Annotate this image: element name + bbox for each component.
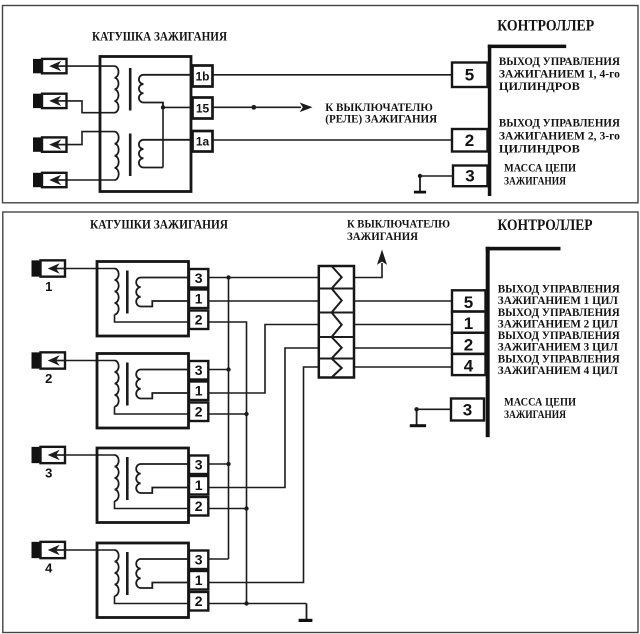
svg-text:ЗАЖИГАНИЯ: ЗАЖИГАНИЯ	[347, 231, 419, 243]
terminal 3 coil 4	[189, 551, 208, 570]
svg-text:1: 1	[195, 383, 203, 399]
svg-text:2: 2	[464, 335, 473, 354]
wire plug to coil 2	[65, 360, 115, 362]
svg-text:КАТУШКИ ЗАЖИГАНИЯ: КАТУШКИ ЗАЖИГАНИЯ	[90, 218, 228, 232]
arrow up to ignition switch	[377, 250, 387, 265]
svg-text:2: 2	[195, 404, 203, 420]
svg-text:МАССА ЦЕПИ: МАССА ЦЕПИ	[504, 397, 576, 409]
coil 2 primary winding	[115, 361, 119, 407]
ignition coil 3 box	[97, 448, 189, 523]
terminal 3 coil 1	[189, 269, 208, 288]
wire terminal 1b to controller pin 5	[213, 74, 453, 76]
svg-text:3: 3	[195, 552, 203, 568]
wire coil2 terminal2 to bus	[208, 413, 246, 415]
svg-text:1: 1	[195, 572, 203, 588]
wire coil4 terminal1 to connector block	[208, 367, 318, 583]
svg-text:КОНТРОЛЛЕР: КОНТРОЛЛЕР	[498, 217, 593, 234]
node: secondary junction to terminal 15	[161, 105, 165, 109]
coil 3 secondary winding with wires to terminals 3 and 1	[136, 464, 189, 493]
coil 4 secondary winding with wires to terminals 3 and 1	[136, 559, 189, 588]
svg-text:(РЕЛЕ) ЗАЖИГАНИЯ: (РЕЛЕ) ЗАЖИГАНИЯ	[325, 113, 437, 125]
coil core upper	[129, 68, 132, 111]
wire coil4 terminal3 to bus	[208, 558, 228, 560]
high-voltage lead connector 2 (top panel)	[33, 94, 42, 108]
coil 2 secondary winding with wires to terminals 3 and 1	[136, 370, 189, 399]
svg-text:1b: 1b	[195, 69, 209, 83]
svg-text:3: 3	[195, 457, 203, 473]
svg-text:2: 2	[195, 312, 203, 328]
controller pin 5 (top)	[452, 63, 488, 88]
terminal 1 coil 4	[189, 571, 208, 590]
coil 2 core	[126, 363, 129, 406]
terminal 1 coil 3	[189, 476, 208, 495]
arrow to ignition switch (relay)	[300, 103, 313, 113]
svg-text:5: 5	[465, 66, 474, 85]
bottom panel frame	[3, 212, 638, 633]
junction t2 bus coil2	[244, 412, 248, 416]
terminal 1b	[193, 66, 213, 87]
wire coil2 terminal1 to connector block	[208, 325, 318, 394]
wire terminal 1a to controller pin 2	[213, 139, 453, 141]
ground symbol (bottom right)	[416, 409, 418, 425]
controller pin 5 (bottom)	[452, 290, 486, 311]
wire coil3 terminal1 to connector block	[208, 348, 318, 488]
wire junction to terminal 15	[163, 106, 193, 108]
terminal 2 coil 4	[189, 592, 208, 611]
wire coil3 terminal2 to bus	[208, 508, 246, 510]
svg-text:3: 3	[463, 401, 472, 420]
terminal 3 coil 3	[189, 456, 208, 475]
terminal 3 coil 2	[189, 361, 208, 380]
svg-text:2: 2	[45, 371, 52, 386]
svg-text:ЗАЖИГАНИЕМ 2 ЦИЛ: ЗАЖИГАНИЕМ 2 ЦИЛ	[498, 318, 618, 330]
svg-text:1: 1	[45, 279, 52, 294]
svg-text:ВЫХОД УПРАВЛЕНИЯ: ВЫХОД УПРАВЛЕНИЯ	[499, 118, 621, 130]
ignition coil 4 box	[97, 543, 189, 618]
wire lead1 to coil primary1 top	[67, 65, 115, 67]
controller pin 4 (bottom)	[452, 354, 486, 375]
node on ignition switch wire	[251, 105, 256, 110]
connector cell dividers	[319, 288, 354, 290]
svg-text:ВЫХОД УПРАВЛЕНИЯ: ВЫХОД УПРАВЛЕНИЯ	[498, 307, 621, 319]
controller pin 1 (bottom)	[452, 312, 486, 333]
svg-text:3: 3	[195, 270, 203, 286]
wire coil1 terminal2 and terminal-2 bus	[208, 322, 246, 604]
svg-text:КОНТРОЛЛЕР: КОНТРОЛЛЕР	[497, 17, 594, 34]
coil 3 wire primary to terminal 2	[115, 501, 190, 509]
wire connector to pin 2 (bottom)	[354, 347, 452, 349]
ignition coil 2 box	[97, 354, 189, 429]
coil 1 core	[126, 271, 129, 314]
svg-text:3: 3	[465, 167, 474, 186]
svg-text:1a: 1a	[196, 135, 210, 149]
svg-text:КАТУШКА ЗАЖИГАНИЯ: КАТУШКА ЗАЖИГАНИЯ	[92, 30, 227, 44]
connector contact zigzag	[332, 266, 342, 378]
wire coil2 terminal3 to bus	[208, 369, 228, 371]
coil 1 secondary winding with wires to terminals 3 and 1	[136, 278, 189, 307]
svg-text:ВЫХОД УПРАВЛЕНИЯ: ВЫХОД УПРАВЛЕНИЯ	[498, 353, 621, 365]
coil core lower	[129, 134, 132, 177]
svg-text:ЦИЛИНДРОВ: ЦИЛИНДРОВ	[499, 144, 580, 156]
svg-text:2: 2	[465, 131, 474, 150]
controller pin 3 (bottom)	[451, 399, 484, 421]
wire plug to coil 1	[65, 268, 115, 270]
svg-text:ЗАЖИГАНИЕМ 4 ЦИЛ: ЗАЖИГАНИЕМ 4 ЦИЛ	[498, 365, 618, 377]
terminal 2 coil 2	[189, 403, 208, 422]
svg-text:4: 4	[45, 560, 53, 575]
terminal 1a	[193, 131, 213, 152]
wire connector to pin 1 (bottom)	[354, 324, 452, 326]
coil 4 wire primary to terminal 2	[115, 596, 190, 604]
svg-text:ЗАЖИГАНИЕМ 2, 3-го: ЗАЖИГАНИЕМ 2, 3-го	[499, 131, 620, 143]
wire lead3 to coil primary2 top	[67, 132, 115, 145]
controller pin 2 (top)	[452, 129, 488, 152]
connector plug coil 1	[32, 260, 41, 276]
wire pin 3 to ground (top)	[420, 175, 453, 177]
top panel frame	[3, 6, 639, 203]
wire connector to pin 5 (bottom)	[354, 300, 452, 302]
controller pin 3 (top)	[453, 166, 488, 187]
high-voltage lead connector 1 (top panel)	[33, 59, 42, 73]
terminal 15	[193, 98, 213, 119]
terminal-3 bus vertical	[228, 278, 230, 560]
svg-text:3: 3	[45, 465, 52, 480]
terminal 2 coil 1	[189, 311, 208, 330]
node ground (top)	[418, 174, 422, 178]
svg-text:К ВЫКЛЮЧАТЕЛЮ: К ВЫКЛЮЧАТЕЛЮ	[347, 219, 450, 231]
node ground (bottom)	[414, 407, 418, 411]
coil 4 core	[126, 552, 129, 595]
junction t3 bus coil3	[226, 462, 230, 466]
controller bracket (top panel)	[488, 45, 566, 49]
wire plug to coil 4	[65, 549, 115, 551]
coil 3 primary winding	[115, 455, 119, 501]
wire junction down to secondary 2 bottom	[162, 107, 164, 167]
coil 4 primary winding	[115, 550, 119, 596]
wire plug to coil 3	[65, 454, 115, 456]
wire lead2 to coil primary1 bottom	[67, 101, 115, 113]
junction t3 bus coil1	[226, 275, 230, 279]
svg-text:ВЫХОД УПРАВЛЕНИЯ: ВЫХОД УПРАВЛЕНИЯ	[498, 284, 621, 296]
primary winding 2	[115, 132, 119, 180]
wire coil3 terminal3 to bus	[208, 463, 228, 465]
svg-text:К ВЫКЛЮЧАТЕЛЮ: К ВЫКЛЮЧАТЕЛЮ	[325, 102, 433, 114]
controller pin 2 (bottom)	[452, 333, 486, 354]
connector block X (wiring harness connector)	[319, 266, 354, 378]
svg-text:4: 4	[464, 357, 474, 376]
svg-text:2: 2	[195, 498, 203, 514]
junction t2 bus coil4	[244, 601, 248, 605]
svg-text:ЗАЖИГАНИЯ: ЗАЖИГАНИЯ	[504, 409, 567, 421]
svg-text:15: 15	[196, 101, 210, 115]
terminal 1 coil 2	[189, 382, 208, 401]
ground symbol (top panel)	[419, 176, 421, 191]
svg-text:ЗАЖИГАНИЯ: ЗАЖИГАНИЯ	[504, 176, 567, 188]
svg-text:МАССА ЦЕПИ: МАССА ЦЕПИ	[504, 163, 576, 175]
ground symbol (bottom left)	[306, 604, 308, 620]
connector plug coil 2	[32, 352, 41, 368]
wire coil1 terminal1 to connector block	[208, 300, 318, 302]
svg-text:1: 1	[195, 477, 203, 493]
svg-text:2: 2	[195, 593, 203, 609]
ignition coil 1 box	[97, 262, 189, 337]
secondary winding 2 and wire to terminal 1a	[139, 140, 193, 168]
svg-text:ВЫХОД УПРАВЛЕНИЯ: ВЫХОД УПРАВЛЕНИЯ	[498, 330, 621, 342]
svg-text:3: 3	[195, 362, 203, 378]
coil 1 primary winding	[115, 269, 119, 315]
wire coil1 terminal3 to connector block	[208, 277, 318, 279]
coil 2 wire primary to terminal 2	[115, 407, 190, 415]
terminal 1 coil 1	[189, 290, 208, 309]
ignition coil box (top panel)	[100, 57, 191, 192]
wire connector to ignition switch (bottom)	[354, 263, 382, 278]
wire coil4 terminal2 to ground	[208, 603, 306, 605]
wire terminal 15 to ignition switch	[213, 106, 302, 108]
coil 1 wire primary to terminal 2	[115, 315, 190, 323]
connector plug coil 3	[32, 447, 41, 463]
svg-text:1: 1	[195, 291, 203, 307]
svg-text:5: 5	[464, 293, 473, 312]
junction t3 bus coil2	[226, 367, 230, 371]
terminal 2 coil 3	[189, 497, 208, 516]
svg-text:1: 1	[464, 314, 473, 333]
wire lead4 to coil primary2 bottom	[67, 179, 115, 181]
svg-text:ЗАЖИГАНИЕМ 1 ЦИЛ: ЗАЖИГАНИЕМ 1 ЦИЛ	[498, 295, 618, 307]
wire pin 3 to ground (bottom)	[417, 408, 451, 410]
primary winding 1	[115, 66, 119, 113]
svg-text:ЦИЛИНДРОВ: ЦИЛИНДРОВ	[499, 81, 580, 93]
connector plug coil 4	[32, 542, 41, 558]
junction t2 bus coil3	[244, 506, 248, 510]
high-voltage lead connector 3 (top panel)	[33, 137, 42, 151]
svg-text:ЗАЖИГАНИЕМ 3 ЦИЛ: ЗАЖИГАНИЕМ 3 ЦИЛ	[498, 342, 618, 354]
svg-text:ВЫХОД УПРАВЛЕНИЯ: ВЫХОД УПРАВЛЕНИЯ	[499, 56, 621, 68]
controller bracket (bottom panel)	[486, 247, 561, 251]
coil 3 core	[126, 457, 129, 500]
secondary winding 1 and wire to terminal 1b	[139, 75, 193, 108]
svg-text:ЗАЖИГАНИЕМ 1, 4-го: ЗАЖИГАНИЕМ 1, 4-го	[499, 68, 620, 80]
high-voltage lead connector 4 (top panel)	[33, 173, 42, 187]
wire connector to pin 4 (bottom)	[354, 366, 452, 368]
